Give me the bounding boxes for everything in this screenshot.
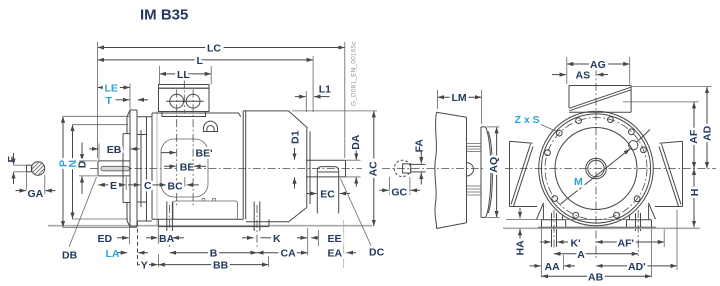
svg-text:Y: Y	[141, 260, 148, 272]
svg-text:AF: AF	[688, 129, 700, 144]
dim Y	[138, 264, 141, 266]
terminal box end view	[569, 86, 631, 113]
dim AD	[706, 87, 708, 169]
rear foot hole centerline	[256, 205, 258, 248]
svg-text:GC: GC	[391, 187, 407, 199]
dim L	[98, 59, 314, 61]
svg-text:H: H	[689, 189, 701, 197]
svg-text:T: T	[106, 95, 113, 107]
svg-text:AG: AG	[590, 59, 606, 71]
shaft key cross-section detail: circle	[31, 162, 44, 175]
svg-text:LC: LC	[207, 43, 221, 55]
front shaft	[98, 161, 130, 176]
dim BA	[146, 237, 158, 239]
dim A	[554, 253, 638, 255]
svg-text:DB: DB	[62, 250, 78, 262]
LM detail shaft bump	[467, 163, 474, 176]
gland centerline 2	[192, 90, 194, 207]
lifting eye	[204, 121, 218, 131]
svg-text:EC: EC	[320, 189, 335, 201]
fan cowl	[243, 111, 310, 222]
svg-text:B: B	[210, 248, 218, 260]
dim CA	[257, 252, 308, 254]
svg-text:GA: GA	[28, 188, 44, 200]
LM detail hub lines	[467, 144, 482, 196]
left gusset	[510, 141, 538, 206]
LM detail flange ring	[481, 127, 492, 217]
dimension P	[62, 116, 64, 227]
dim GC	[380, 189, 389, 191]
svg-text:DA: DA	[350, 134, 362, 150]
svg-text:LE: LE	[105, 83, 118, 95]
svg-text:K': K'	[571, 237, 581, 249]
dim K	[242, 237, 254, 239]
dim LE	[98, 87, 130, 89]
dim LM	[438, 96, 482, 98]
inner circle	[555, 128, 637, 210]
dim AC	[373, 111, 375, 226]
stator barrel outline	[161, 139, 208, 197]
svg-text:LL: LL	[177, 69, 190, 81]
svg-text:EB: EB	[107, 144, 122, 156]
gland centerline 1	[176, 90, 178, 207]
svg-text:M: M	[574, 176, 583, 188]
svg-text:L1: L1	[319, 83, 331, 95]
svg-text:K: K	[273, 233, 281, 245]
svg-text:Z x S: Z x S	[515, 114, 540, 126]
svg-text:IM B35: IM B35	[140, 7, 188, 24]
frame under-structure	[173, 201, 237, 219]
right gusset	[655, 141, 683, 206]
svg-text:AB: AB	[588, 271, 604, 283]
motor frame	[152, 111, 246, 219]
hatch in shaft circle	[30, 160, 45, 178]
svg-text:AD: AD	[702, 125, 714, 141]
dim B	[170, 252, 257, 254]
svg-text:D: D	[77, 160, 89, 168]
left foot hole centerline	[553, 210, 555, 250]
dim HA	[519, 208, 521, 218]
terminal box top band	[159, 85, 210, 89]
gray guide vertical 1	[156, 111, 158, 226]
right foot hole centerline	[637, 210, 639, 256]
dim BB	[158, 264, 268, 266]
M diameter line	[561, 149, 631, 204]
svg-text:BA: BA	[159, 233, 175, 245]
svg-text:F: F	[6, 156, 18, 163]
svg-text:G_D081_EN_00165c: G_D081_EN_00165c	[351, 41, 358, 106]
dim EE	[297, 237, 307, 239]
dim C	[128, 184, 140, 186]
bolt holes Z x S	[545, 117, 647, 219]
svg-text:BE: BE	[180, 161, 195, 173]
svg-text:EA: EA	[328, 248, 343, 260]
end view horizontal centerline	[505, 168, 716, 170]
dimension GA	[16, 190, 27, 192]
feet rear pad	[254, 202, 260, 232]
shaft key slot	[101, 166, 130, 171]
cable gland 2	[186, 94, 200, 108]
svg-text:D1: D1	[289, 130, 301, 144]
under-structure lugs	[202, 199, 216, 201]
front foot hole centerline	[169, 205, 171, 248]
svg-text:AQ: AQ	[488, 157, 500, 173]
svg-text:HA: HA	[514, 240, 526, 256]
mounting baseline gray	[48, 225, 372, 227]
flange face dashed extension	[137, 222, 139, 266]
pads bottom line	[158, 226, 269, 228]
feet bottom line	[538, 226, 656, 228]
dim K'	[540, 241, 551, 243]
GC key lines	[411, 163, 426, 165]
large reference hole	[629, 141, 638, 150]
dim AA	[530, 265, 541, 267]
centerline GC detail	[382, 168, 500, 170]
dim AG	[567, 63, 630, 65]
svg-text:LM: LM	[452, 92, 467, 104]
AD reference line	[631, 86, 711, 88]
key square on detail	[27, 165, 32, 172]
LM detail left plate (wavy break edge)	[435, 112, 467, 228]
svg-text:AC: AC	[368, 161, 380, 177]
dim AF'	[596, 241, 664, 243]
end view right foot	[627, 203, 656, 231]
gray guide vertical 2	[343, 220, 345, 268]
end shield block	[137, 117, 152, 221]
rear shaft	[306, 160, 346, 177]
svg-text:BB: BB	[213, 260, 229, 272]
svg-text:AD': AD'	[628, 261, 646, 273]
GC key square	[403, 164, 411, 173]
cable gland 1	[170, 94, 184, 108]
svg-text:FA: FA	[413, 139, 425, 153]
svg-text:BE': BE'	[196, 148, 213, 160]
feet front pad	[158, 202, 269, 232]
GC shaft detail: dashed circle	[394, 160, 410, 176]
frame outer circle	[539, 111, 654, 226]
centerline shaft axis	[90, 168, 362, 170]
svg-text:ED: ED	[98, 233, 113, 245]
svg-text:EE: EE	[328, 233, 342, 245]
end view left foot	[537, 203, 566, 247]
svg-text:DC: DC	[369, 247, 385, 259]
frame rim circle	[541, 114, 650, 223]
svg-text:AS: AS	[576, 70, 591, 82]
svg-text:C: C	[144, 180, 152, 192]
dim E	[98, 184, 125, 186]
dim BE'	[161, 152, 176, 154]
dim AF	[693, 102, 695, 169]
svg-text:L: L	[197, 55, 204, 67]
terminal box centerline	[183, 80, 185, 113]
AF reference line	[623, 101, 699, 103]
bearing cap plate	[123, 134, 130, 203]
dim H	[693, 169, 695, 228]
svg-text:BC: BC	[168, 181, 184, 193]
svg-text:A: A	[577, 249, 585, 261]
EC bracket	[317, 167, 338, 214]
dim LL	[160, 73, 212, 75]
dimension D	[81, 143, 83, 161]
baseline gray end view	[503, 227, 700, 229]
end view vertical centerline	[595, 68, 597, 258]
extension lines top	[97, 42, 99, 158]
flange plate	[127, 110, 137, 227]
svg-text:CA: CA	[281, 248, 297, 260]
dim LC	[98, 47, 345, 49]
svg-text:E: E	[110, 180, 117, 192]
svg-text:AF': AF'	[618, 237, 635, 249]
shaft hub circles	[586, 158, 607, 179]
dim BE	[164, 165, 176, 167]
dimension N	[72, 125, 74, 219]
dim AB	[542, 275, 652, 277]
bolt circle centerline	[545, 118, 647, 220]
terminal box body	[159, 88, 210, 111]
dim AD'	[596, 265, 677, 267]
svg-text:LA: LA	[106, 248, 120, 260]
svg-text:AA: AA	[545, 261, 561, 273]
terminal box platform	[162, 112, 206, 117]
pad top plane line	[566, 219, 627, 221]
dim EC	[307, 193, 317, 195]
dim AQ	[496, 127, 498, 217]
